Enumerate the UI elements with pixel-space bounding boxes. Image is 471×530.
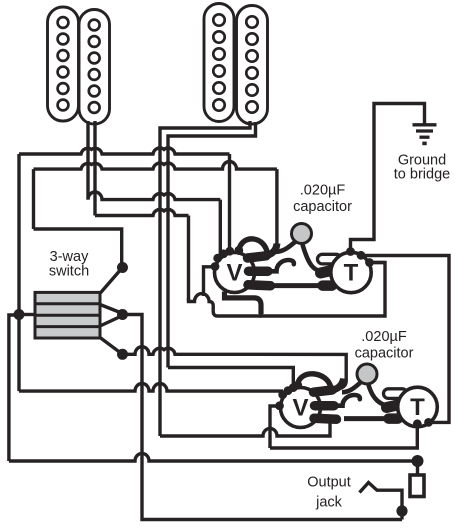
- wire W1: far left down to V2 dot: [19, 384, 283, 392]
- volume pot V2: [281, 374, 331, 428]
- V1 lug 2: [249, 266, 269, 276]
- V2 lug 1: [314, 390, 333, 392]
- wire A: V1 top dot to switch common, left run y=154: [228, 154, 231, 251]
- pickup neck humbucker coil 2: [79, 10, 110, 125]
- capacitor C2: [357, 364, 377, 384]
- wire D staircase hop over V1 case wire: [189, 294, 262, 316]
- switch pole diagonals: [100, 268, 123, 294]
- tone pot T2: [398, 387, 438, 427]
- wire T1 top dot to ground bridge: [351, 104, 425, 252]
- svg-text:.020µF: .020µF: [300, 183, 346, 199]
- wire switch common stub: [19, 313, 35, 316]
- svg-text:jack: jack: [315, 495, 343, 511]
- switch solder dots: [14, 262, 129, 360]
- wire D: neck lead2 across and down to tone box: [95, 209, 189, 215]
- V1 lug 1: [248, 256, 267, 258]
- svg-text:T: T: [410, 394, 425, 421]
- wire bridge pickup lead 1 (outer): [160, 121, 250, 436]
- svg-text:V: V: [226, 260, 242, 287]
- capacitor C2 leads: [342, 382, 361, 392]
- capacitor C1: [292, 224, 312, 244]
- wire C: neck lead1 across to V1 top: [88, 192, 220, 200]
- 3-way switch body: [35, 292, 100, 338]
- jack bottom dot: [396, 505, 407, 516]
- V2 lug1 to cap2 junction: [324, 379, 344, 392]
- T1 lug solder mid: [321, 270, 333, 273]
- V2 solder dots: [275, 381, 302, 410]
- wire neck pickup lead 1 vertical: [86, 121, 89, 200]
- wire bridge pickup lead 2 (inner): [168, 122, 256, 368]
- wire T1 dot3 into frame: [370, 261, 386, 264]
- wire V1 casing drop from left dot: [204, 267, 216, 296]
- volume pot V1: [215, 239, 268, 293]
- tone pot T1: [331, 252, 371, 292]
- V1 lug 3: [248, 285, 271, 286]
- svg-text:switch: switch: [49, 264, 89, 280]
- wire jack hot polyline: [360, 483, 403, 520]
- V1 lug2 hook wire: [266, 260, 294, 271]
- wire neck pickup lead 2 vertical: [93, 121, 96, 216]
- wire bridge lead2 to V2 input dot: [168, 368, 293, 389]
- V1 lug1 to cap junction: [258, 244, 277, 258]
- wire V1 bottom to tone pot frame: [225, 292, 262, 315]
- V1 solder dots: [211, 246, 244, 271]
- wire jack ground stub: [416, 461, 419, 475]
- pickup bridge humbucker coil 1: [204, 4, 234, 122]
- V2 lug 3: [314, 418, 337, 419]
- wire ground bus to T2: [160, 417, 330, 436]
- output jack sleeve rect: [410, 475, 424, 497]
- jack ground dot: [412, 455, 424, 467]
- wire switch dot3 to V2 top: [123, 347, 347, 389]
- capacitor C1 leads: [276, 242, 296, 252]
- T1 solder dots: [346, 247, 374, 267]
- V2 lug2 hook wire: [332, 395, 360, 406]
- tone pot T1 white lug: [318, 254, 342, 264]
- T2 lug solder bottom: [389, 413, 399, 424]
- wire riser from output line to V2 left dot: [270, 406, 279, 448]
- wire B: V1 lug1 junction up and left y=169: [275, 169, 278, 244]
- pickup neck humbucker coil 1: [48, 7, 79, 121]
- V2 lug 2: [315, 401, 335, 411]
- wire switch dot2 down to bottom line: [123, 315, 402, 520]
- T2 solder dots: [413, 418, 433, 428]
- svg-text:to bridge: to bridge: [394, 167, 450, 183]
- wire E: to switch top solder dot: [34, 229, 122, 267]
- svg-text:V: V: [292, 395, 308, 422]
- svg-text:.020µF: .020µF: [361, 329, 407, 345]
- T2 lug solder mid: [387, 405, 399, 408]
- svg-text:Output: Output: [307, 475, 351, 491]
- svg-text:capacitor: capacitor: [355, 346, 414, 362]
- wire V1 lug3 to T1 lug: [270, 283, 318, 288]
- ground symbol to bridge: [413, 125, 437, 144]
- wire output line H1: [9, 453, 418, 461]
- wire V2 lug3 to T2 lug: [344, 416, 385, 421]
- pickup bridge humbucker coil 2: [237, 6, 268, 125]
- tone pot T2 white lug: [384, 389, 408, 399]
- svg-text:T: T: [344, 260, 359, 287]
- wire T1 dot2 to right bus down to T2: [361, 256, 449, 423]
- svg-text:capacitor: capacitor: [293, 199, 352, 215]
- T1 lug solder bottom: [323, 280, 333, 291]
